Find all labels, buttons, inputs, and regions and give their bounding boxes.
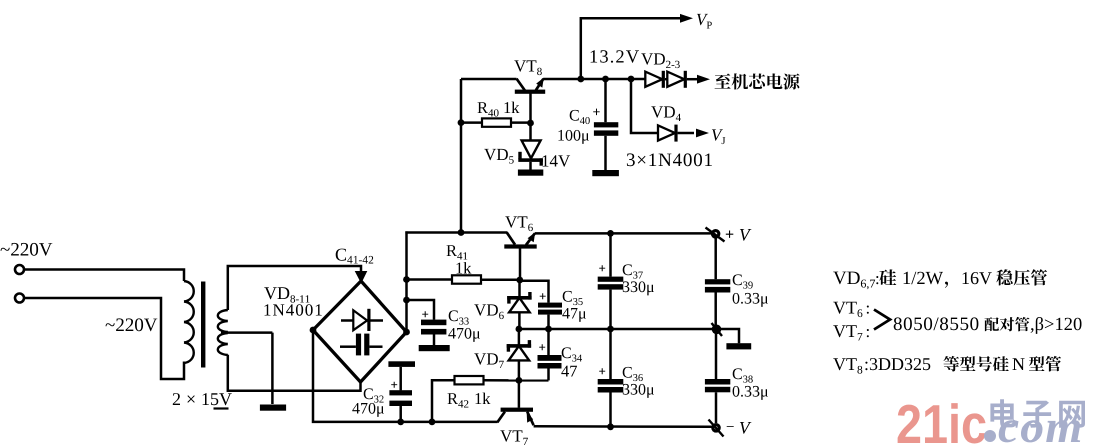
wire base node to C35 xyxy=(520,281,549,303)
capacitor C37 xyxy=(598,233,624,329)
ground center tap xyxy=(260,405,286,411)
note VD6 VD7 spec xyxy=(833,269,1047,289)
label Vp xyxy=(697,14,712,29)
wire VD4 branch xyxy=(631,79,658,133)
label VD5 xyxy=(484,149,514,164)
wire R40 left lead xyxy=(461,121,482,124)
wire secondary top to bridge AC top xyxy=(228,266,361,310)
terminal +V xyxy=(706,228,725,242)
label VD4 xyxy=(651,106,681,121)
bridge inner diode symbol xyxy=(341,309,383,331)
transformer T core xyxy=(201,282,205,368)
resistor R41 xyxy=(452,275,481,283)
label C37 330u xyxy=(623,264,654,295)
wire bridge+ vertical xyxy=(405,231,408,332)
label -V xyxy=(727,422,752,434)
bridge inner capacitor symbol xyxy=(340,334,383,356)
capacitor C40 xyxy=(594,79,618,170)
capacitor C36 xyxy=(598,329,624,427)
label 13.2V xyxy=(591,50,639,63)
wire secondary bottom to bridge AC bottom xyxy=(228,355,361,391)
node C32 bottom rail xyxy=(397,419,404,426)
node R42 riser bottom rail xyxy=(429,419,436,426)
ground mid rail xyxy=(726,343,751,349)
wire VT8 riser xyxy=(460,79,463,231)
wire R42 left riser xyxy=(432,380,455,422)
terminal -V xyxy=(709,420,724,437)
wire R41 left lead xyxy=(407,278,453,281)
label VJ xyxy=(712,129,725,144)
label C35 47u xyxy=(562,291,586,322)
wire R40 right lead xyxy=(511,121,531,124)
label VD8-11 xyxy=(264,287,322,316)
node VD6 VD7 midrail xyxy=(516,326,523,333)
zener diode VD6 xyxy=(507,280,531,329)
arrow to chassis supply xyxy=(697,75,710,84)
node VT6 base xyxy=(516,277,523,284)
wire top input to primary xyxy=(24,270,184,282)
zener diode VD5 xyxy=(518,123,543,170)
terminal J1 top xyxy=(15,265,24,274)
wire bridge- vertical and bottom rail xyxy=(313,331,498,422)
label VD7 xyxy=(474,353,504,368)
wire mid rail xyxy=(519,328,717,331)
label 至机芯电源 xyxy=(715,73,800,89)
resistor R40 xyxy=(482,118,511,126)
wire upper rail to VT6 xyxy=(405,231,507,234)
zener diode VD7 xyxy=(507,329,531,408)
wire ground stub xyxy=(717,329,740,343)
diode VD2 xyxy=(645,71,665,88)
watermark 21ic xyxy=(898,403,986,443)
capacitor C38 xyxy=(705,329,730,423)
watermark com xyxy=(999,420,1080,442)
node C35 C34 midrail xyxy=(545,326,552,333)
label C36 330u xyxy=(623,367,654,398)
node VT8 riser top rail xyxy=(458,229,465,236)
ground C33 xyxy=(419,345,450,351)
wire VT8 collector from riser xyxy=(461,78,517,81)
node VD2 branch xyxy=(628,76,635,83)
label C38 0.33u xyxy=(733,368,768,400)
label ~220V mains xyxy=(1,243,53,256)
wire C33 branch xyxy=(407,300,435,320)
transformer T primary winding xyxy=(184,281,194,363)
bridge rectifier VD8-11 diamond xyxy=(313,281,407,382)
label 2x15V xyxy=(173,393,232,410)
label +V xyxy=(726,229,752,241)
node R41 tap xyxy=(403,276,410,283)
label C33 470u xyxy=(448,310,480,342)
wire VT7 emitter to -V rail xyxy=(534,425,712,428)
node VD5 top xyxy=(527,120,534,127)
label R42 1k xyxy=(448,393,491,408)
ground C40 xyxy=(592,170,619,176)
label C40+ 100u xyxy=(558,109,599,144)
label R41 1k xyxy=(447,245,472,273)
label 3x1N4001 xyxy=(627,153,712,166)
label C39 0.33u xyxy=(733,274,768,307)
label VT7 xyxy=(500,430,528,445)
arrow Vp xyxy=(680,14,693,23)
diode VD3 xyxy=(665,71,698,88)
wire bottom input to primary xyxy=(24,298,184,379)
node C40 top xyxy=(602,76,609,83)
node VD7 R42 xyxy=(516,377,523,384)
note VT6 VT7 spec xyxy=(833,302,1081,341)
label 14V xyxy=(543,155,571,166)
label R40 1k xyxy=(478,102,520,117)
capacitor C34 xyxy=(538,329,562,380)
transistor VT7 xyxy=(497,408,533,426)
transistor VT8 xyxy=(515,78,545,123)
capacitor C33 xyxy=(421,311,446,345)
wire VT8 emitter rail xyxy=(543,78,645,81)
watermark 电子网 xyxy=(990,399,1085,427)
watermark dot xyxy=(984,430,996,442)
terminal J2 bottom xyxy=(15,294,24,303)
node C36 top midrail xyxy=(607,326,614,333)
label C34 47 xyxy=(561,347,582,376)
label VT8 xyxy=(514,60,542,75)
resistor R42 xyxy=(455,376,484,384)
label VD6 xyxy=(474,304,504,319)
node C37 top xyxy=(607,230,614,237)
wire VT6 emitter to +V rail xyxy=(535,232,712,235)
transistor VT6 xyxy=(504,232,536,280)
capacitor C32 xyxy=(389,367,412,422)
transformer T secondary winding lower xyxy=(218,333,228,355)
label C41-42 with pointer xyxy=(336,249,374,284)
node C33 tap xyxy=(403,297,410,304)
capacitor C39 xyxy=(705,238,730,330)
node R40 left xyxy=(458,119,465,126)
ground C32 top inverted xyxy=(388,361,415,367)
wire Vp branch xyxy=(581,18,681,79)
wire secondary center tap to ground xyxy=(221,333,272,404)
node mid rail right terminal xyxy=(712,323,723,336)
ground VD5 xyxy=(518,170,543,176)
transformer T secondary winding upper xyxy=(218,310,228,332)
wire R42 right to VD7 node xyxy=(484,379,549,382)
note VT8 spec xyxy=(833,356,1061,374)
label ~220V primary xyxy=(106,318,158,331)
label VD2-3 xyxy=(641,53,680,68)
capacitor C35 xyxy=(538,293,562,329)
node C36 bottom rail xyxy=(607,423,614,430)
arrow VJ xyxy=(696,129,709,138)
node bridge left vertex xyxy=(310,327,317,334)
node bridge right vertex xyxy=(403,329,410,336)
diode VD4 xyxy=(658,125,694,142)
wire R41 right to VT6 base node xyxy=(481,278,520,281)
node Vp branch xyxy=(577,76,584,83)
label VT6 xyxy=(505,216,533,231)
label C32 xyxy=(352,388,384,417)
